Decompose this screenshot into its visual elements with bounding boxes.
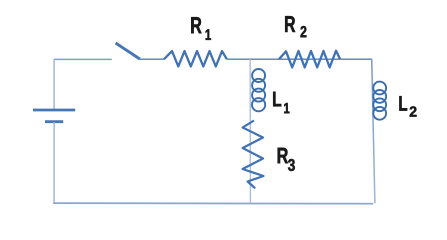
label R2 subscript 2 (301, 26, 307, 37)
label R2 (285, 16, 295, 32)
resistor R1 (164, 51, 227, 66)
inductor L1 (coil of 4 loops) (252, 69, 265, 111)
wire: bottom rail (53, 202, 373, 205)
label L1 subscript 1 (284, 103, 289, 113)
label R1 subscript 1 (206, 29, 211, 40)
label R3 subscript 3 (288, 159, 295, 171)
resistor R2 (279, 51, 340, 68)
inductor L2 (coil of 4 loops) (373, 82, 386, 120)
wire: left vertical lower (battery - down to bottom rail) (53, 122, 55, 203)
resistor R3 (243, 121, 264, 189)
wire: R1 to top-right corner (runs under R2) (227, 58, 372, 60)
label L2 subscript 2 (410, 106, 417, 116)
wire: left vertical upper (corner down to battery top plate) (53, 59, 55, 110)
label L1 (273, 92, 281, 107)
wire: right vertical (top-right corner down to bottom rail, runs under L2) (372, 59, 375, 204)
switch S1 (open lever) (116, 43, 140, 59)
label L2 (399, 96, 407, 111)
battery V1 bottom plate (45, 120, 63, 123)
label R1 (191, 17, 201, 33)
wire: middle branch vertical (runs under L1 and R3) (249, 59, 251, 203)
label R3 (278, 148, 288, 163)
battery V1 top plate (33, 109, 75, 112)
wire: switch to R1 (139, 58, 164, 60)
wire: top-left horizontal (battery + to switch) (54, 58, 112, 60)
